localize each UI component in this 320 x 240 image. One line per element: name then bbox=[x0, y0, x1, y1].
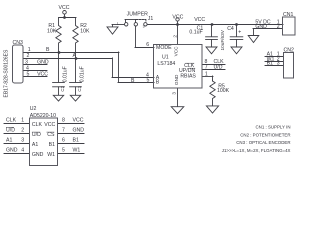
svg-text:0.01uF: 0.01uF bbox=[62, 66, 68, 82]
svg-text:GND: GND bbox=[255, 24, 267, 30]
svg-text:W1: W1 bbox=[73, 148, 81, 154]
svg-text:6: 6 bbox=[146, 42, 149, 48]
svg-text:0.1uF: 0.1uF bbox=[189, 30, 202, 36]
svg-text:J1: J1 bbox=[148, 16, 154, 22]
svg-text:7: 7 bbox=[205, 65, 208, 71]
svg-text:2: 2 bbox=[21, 128, 24, 134]
svg-text:B: B bbox=[46, 47, 50, 53]
svg-text:A1: A1 bbox=[32, 142, 38, 148]
svg-text:B: B bbox=[156, 80, 160, 86]
svg-text:A: A bbox=[73, 53, 77, 59]
svg-text:CLK: CLK bbox=[6, 118, 17, 124]
svg-text:CN1 : SUPPLY IN: CN1 : SUPPLY IN bbox=[256, 125, 291, 130]
svg-text:2: 2 bbox=[172, 35, 177, 38]
svg-text:GND: GND bbox=[73, 128, 85, 134]
svg-text:2: 2 bbox=[27, 53, 30, 59]
svg-text:B: B bbox=[131, 78, 135, 84]
svg-text:+: + bbox=[238, 30, 241, 36]
svg-text:3: 3 bbox=[171, 92, 176, 95]
svg-text:W1: W1 bbox=[47, 152, 55, 158]
svg-text:GND: GND bbox=[37, 59, 49, 65]
svg-text:CS: CS bbox=[47, 132, 55, 138]
svg-text:U1: U1 bbox=[162, 55, 169, 61]
svg-text:VCC: VCC bbox=[73, 118, 84, 124]
svg-text:CN2: CN2 bbox=[284, 48, 294, 54]
svg-text:7: 7 bbox=[62, 128, 65, 134]
svg-text:1: 1 bbox=[205, 71, 208, 77]
svg-text:U/D: U/D bbox=[6, 128, 15, 134]
svg-text:C3: C3 bbox=[77, 85, 82, 91]
svg-text:10K: 10K bbox=[47, 28, 57, 34]
svg-text:10K: 10K bbox=[80, 28, 90, 34]
svg-text:CN3 : OPTICAL ENCODER: CN3 : OPTICAL ENCODER bbox=[236, 140, 290, 145]
svg-text:4: 4 bbox=[21, 148, 24, 154]
svg-text:B1: B1 bbox=[73, 138, 79, 144]
svg-text:3: 3 bbox=[143, 25, 145, 29]
svg-text:VCC: VCC bbox=[59, 5, 70, 11]
svg-text:GND: GND bbox=[174, 74, 179, 85]
svg-text:3: 3 bbox=[277, 61, 280, 67]
svg-text:VCC: VCC bbox=[173, 46, 178, 57]
svg-text:1: 1 bbox=[117, 22, 119, 26]
svg-text:AD5220-10: AD5220-10 bbox=[30, 113, 56, 119]
svg-text:100K: 100K bbox=[217, 88, 230, 94]
svg-text:U/D: U/D bbox=[214, 65, 223, 71]
svg-text:EB17-928-S00126ES: EB17-928-S00126ES bbox=[3, 49, 9, 97]
svg-text:C4: C4 bbox=[227, 26, 234, 32]
svg-text:CN2 : POTENTIOMETER: CN2 : POTENTIOMETER bbox=[240, 132, 290, 137]
svg-text:JUMPER: JUMPER bbox=[127, 11, 149, 17]
svg-text:5: 5 bbox=[147, 78, 150, 84]
svg-text:3: 3 bbox=[21, 138, 24, 144]
svg-text:0.01uF: 0.01uF bbox=[79, 66, 85, 82]
svg-text:2: 2 bbox=[277, 24, 280, 30]
svg-text:LS7184: LS7184 bbox=[157, 61, 175, 67]
svg-text:GND: GND bbox=[6, 148, 18, 154]
svg-text:A1: A1 bbox=[6, 138, 12, 144]
svg-text:10uF/63V: 10uF/63V bbox=[220, 29, 225, 50]
svg-text:U2: U2 bbox=[30, 106, 37, 112]
svg-text:5: 5 bbox=[27, 71, 30, 77]
svg-text:VCC: VCC bbox=[37, 71, 48, 77]
svg-text:CN3: CN3 bbox=[13, 40, 23, 46]
svg-text:J1>>>L=1X, M=2X, FLOATING=4X: J1>>>L=1X, M=2X, FLOATING=4X bbox=[222, 148, 291, 153]
svg-text:CN1: CN1 bbox=[283, 12, 293, 18]
svg-text:6: 6 bbox=[62, 138, 65, 144]
svg-text:CLK: CLK bbox=[32, 122, 43, 128]
svg-text:B1: B1 bbox=[267, 61, 273, 67]
svg-text:VCC: VCC bbox=[194, 17, 205, 23]
svg-text:C2: C2 bbox=[60, 85, 65, 91]
svg-text:B1: B1 bbox=[49, 142, 55, 148]
svg-text:U/D: U/D bbox=[32, 132, 41, 138]
svg-text:5: 5 bbox=[62, 148, 65, 154]
svg-text:VCC: VCC bbox=[172, 14, 183, 20]
svg-text:1: 1 bbox=[21, 118, 24, 124]
svg-text:VCC: VCC bbox=[44, 122, 55, 128]
svg-text:GND: GND bbox=[32, 152, 44, 158]
svg-text:MODE: MODE bbox=[156, 45, 172, 51]
svg-text:8: 8 bbox=[62, 118, 65, 124]
svg-text:RBIAS: RBIAS bbox=[180, 74, 196, 80]
